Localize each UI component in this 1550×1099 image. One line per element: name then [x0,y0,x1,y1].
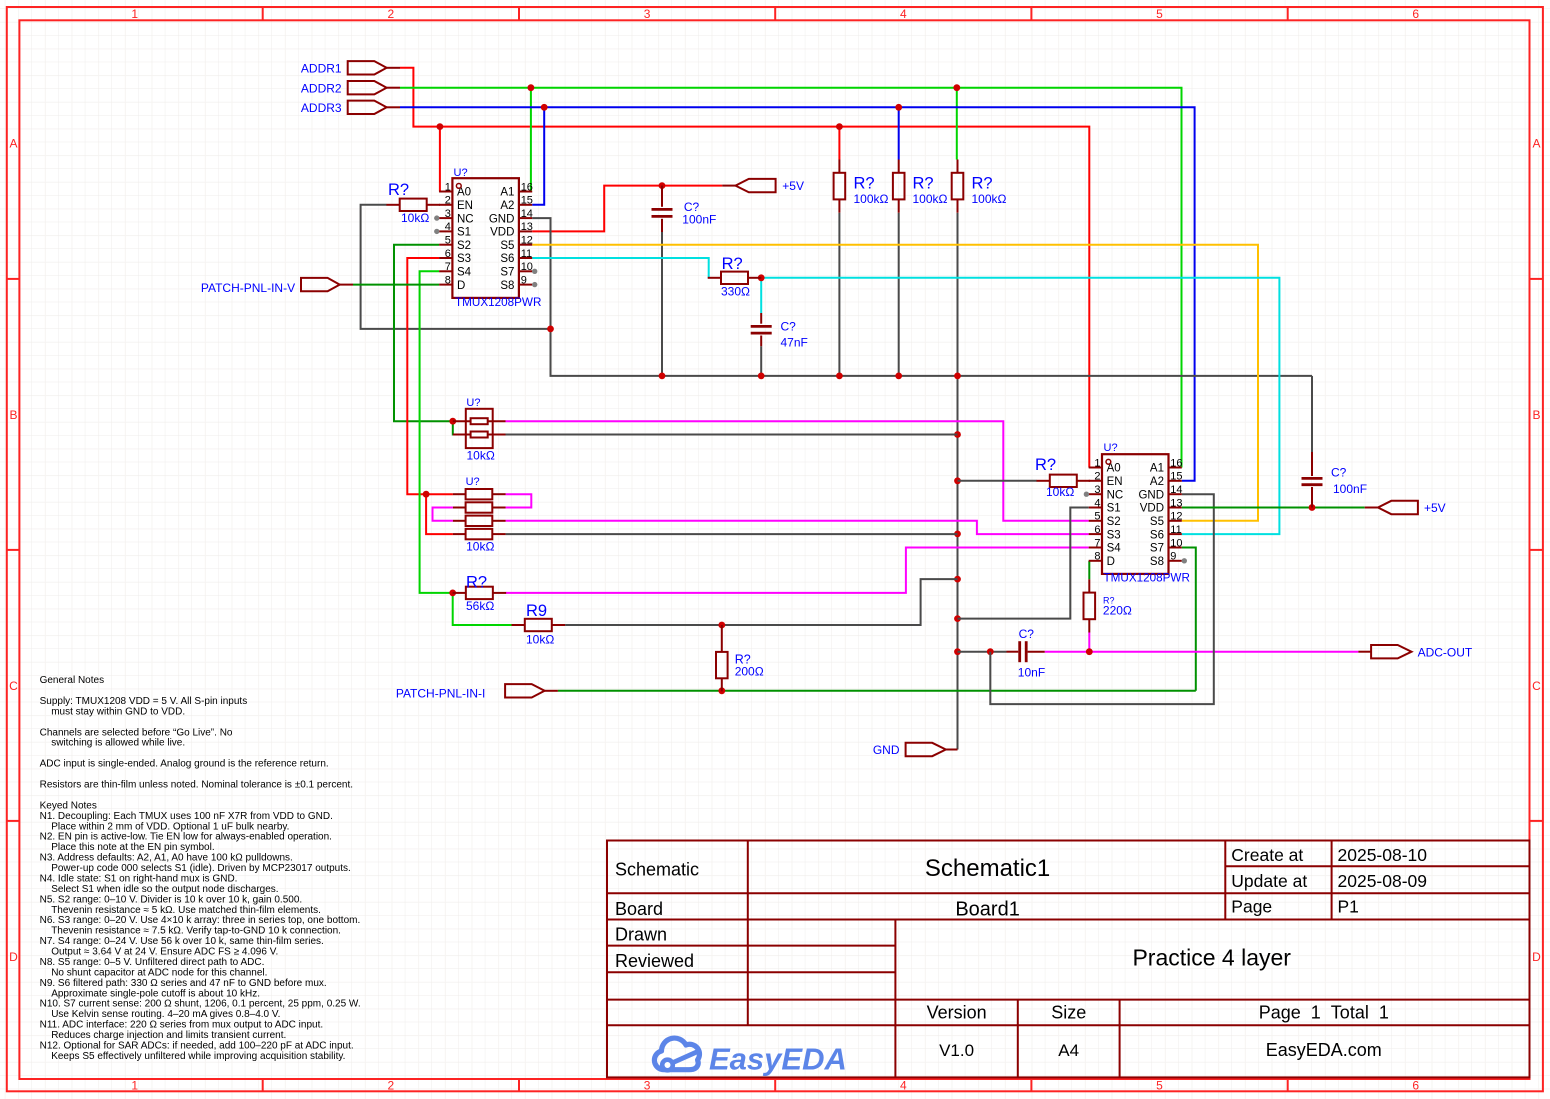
svg-text:100kΩ: 100kΩ [854,192,889,206]
U? right mux pin numbers 1-16 [1094,457,1182,562]
R? ref label (A2 pulldown) [913,175,934,193]
svg-text:10kΩ: 10kΩ [1046,485,1074,499]
svg-text:9: 9 [521,274,527,286]
svg-text:A4: A4 [1058,1041,1079,1060]
svg-text:D: D [457,280,465,292]
svg-text:5: 5 [1094,511,1100,523]
svg-text:A2: A2 [500,200,514,212]
svg-text:S3: S3 [457,253,471,265]
svg-text:5: 5 [1156,7,1163,21]
value label 100kΩ [854,192,889,206]
svg-text:100nF: 100nF [1333,482,1367,496]
wire R? 220 to ADC-OUT line (magenta) [1088,633,1090,652]
svg-text:EN: EN [457,200,473,212]
svg-text:220Ω: 220Ω [1103,604,1132,618]
svg-text:3: 3 [644,1079,651,1093]
svg-text:R?: R? [466,574,487,592]
svg-text:EN: EN [1107,476,1123,488]
junction dots ADDR2 net [528,84,961,91]
svg-text:S3: S3 [1107,529,1121,541]
svg-text:A: A [9,137,17,151]
wire network bottom to GND bus (gray) [506,434,958,436]
svg-text:N3. Address defaults: A2, A1,: N3. Address defaults: A2, A1, A0 have 10… [40,853,293,864]
value label 10kΩ [401,211,429,225]
svg-text:VDD: VDD [1140,503,1164,515]
svg-text:switching is allowed while liv: switching is allowed while live. [51,738,185,749]
no-connect pins U2 NC/S8 [1084,492,1187,564]
svg-text:Approximate single-pole cutoff: Approximate single-pole cutoff is about … [51,988,260,999]
wire ADC-OUT net (C? 10nF to ADC-OUT flag) [1045,651,1359,653]
svg-text:Power-up code 000 selects S1 (: Power-up code 000 selects S1 (idle). Dri… [51,863,351,874]
svg-text:U?: U? [1104,442,1118,454]
junction dot R9/GND wire at R? 200 top [718,622,725,629]
capacitor C? 100nF decoupling U2 [1302,452,1368,508]
svg-text:4: 4 [900,7,907,21]
junction dot S3 net at array pin 1 [423,491,430,498]
svg-text:15: 15 [521,195,533,207]
svg-text:2: 2 [1094,471,1100,483]
junction dot C? 10nF / U2 GND return [987,648,994,655]
svg-text:NC: NC [1107,489,1124,501]
svg-text:R?: R? [1035,456,1056,474]
svg-text:Thevenin resistance ≈ 5 kΩ. Us: Thevenin resistance ≈ 5 kΩ. Use matched … [51,905,321,916]
svg-text:12: 12 [521,235,533,247]
svg-text:Board1: Board1 [955,899,1020,921]
wire U1 S5 to U2 S5 (yellow) [532,245,1258,521]
svg-text:V1.0: V1.0 [939,1041,974,1060]
svg-text:+5V: +5V [782,179,804,193]
svg-text:47nF: 47nF [781,336,808,350]
value label 100nF [682,213,716,227]
capacitor C? 10nF at ADC node [1007,627,1046,680]
svg-text:Supply: TMUX1208 VDD = 5 V. Al: Supply: TMUX1208 VDD = 5 V. All S-pin in… [40,696,248,707]
svg-text:2025-08-10: 2025-08-10 [1338,845,1428,865]
svg-text:1: 1 [1094,457,1100,469]
value label 10nF [1018,666,1045,680]
svg-text:N2. EN pin is active-low. Tie: N2. EN pin is active-low. Tie EN low for… [40,832,332,843]
C? ref label (ADC node) [1019,627,1035,641]
U? left mux reference label [454,167,468,179]
wire U2 D pin to R? 220 [1088,561,1090,580]
svg-text:13: 13 [1170,497,1182,509]
svg-text:Select S1 when idle so the out: Select S1 when idle so the output node d… [51,884,278,895]
svg-text:R?: R? [972,175,993,193]
wire PATCH-PNL-IN-V net to U1 D pin [353,284,439,286]
junction dots ADDR3 net [541,104,902,111]
R? ref label (ADC series) [1103,596,1115,606]
svg-text:Use Kelvin sense routing. 4–20: Use Kelvin sense routing. 4–20 mA gives … [51,1009,280,1020]
svg-text:Channels are selected before “: Channels are selected before “Go Live”. … [40,727,233,738]
svg-text:Create at: Create at [1231,845,1303,865]
svg-text:S4: S4 [1107,543,1122,555]
svg-text:S7: S7 [500,267,514,279]
svg-text:S8: S8 [500,280,514,292]
svg-text:13: 13 [521,221,533,233]
wire ADDR2 net (green bus to U1 A1 and U2 A1) [400,88,1182,468]
svg-text:1: 1 [131,7,138,21]
svg-text:EasyEDA.com: EasyEDA.com [1266,1040,1382,1060]
wire U2 GND pin return loop [990,494,1214,704]
svg-text:ADC-OUT: ADC-OUT [1418,645,1473,659]
svg-text:R?: R? [388,181,409,199]
svg-text:N12. Optional for SAR ADCs: if: N12. Optional for SAR ADCs: if needed, a… [40,1041,354,1052]
resistor R? 10k at U1 EN [386,181,440,225]
svg-text:10kΩ: 10kΩ [401,211,429,225]
wire +5V net left (U1 VDD to +5V flag, C? 100nF tap) [532,186,722,232]
svg-text:4: 4 [900,1079,907,1093]
R? ref label (S6 series) [722,255,743,273]
svg-text:4: 4 [1094,497,1100,509]
svg-text:7: 7 [1094,537,1100,549]
svg-text:330Ω: 330Ω [721,285,750,299]
svg-text:No shunt capacitor at ADC node: No shunt capacitor at ADC node for this … [51,967,267,978]
svg-text:D: D [1532,950,1541,964]
svg-text:C: C [9,679,18,693]
capacitor C? 47nF filter to GND [751,313,808,350]
svg-text:N9. S6 filtered path: 330 Ω se: N9. S6 filtered path: 330 Ω series and 4… [40,978,327,989]
resistor R? 220 series to ADC [1084,579,1132,632]
svg-text:N1. Decoupling: Each TMUX uses: N1. Decoupling: Each TMUX uses 100 nF X7… [40,811,333,822]
junction dot S2 net at network pin 1 [449,418,456,425]
svg-text:Schematic1: Schematic1 [925,855,1050,882]
svg-text:S2: S2 [457,240,471,252]
title block table [607,841,1530,1078]
svg-text:Output ≈ 3.64 V at 24 V. Ensur: Output ≈ 3.64 V at 24 V. Ensure ADC FS ≥… [51,947,278,958]
junction dot S6 net at R? 330 / C? 47nF [758,274,765,281]
EasyEDA logo [654,1038,846,1076]
svg-text:A1: A1 [500,187,514,199]
U? right mux reference label [1104,442,1118,454]
resistor R? 330 series filter S6 [708,255,762,299]
value label 10kΩ [526,633,554,647]
wire R? 56k output to U2 S4 (magenta) [506,548,1089,593]
svg-text:PATCH-PNL-IN-V: PATCH-PNL-IN-V [201,281,295,295]
svg-text:R9: R9 [526,602,547,620]
svg-text:R?: R? [722,255,743,273]
svg-text:B: B [1532,408,1540,422]
svg-text:Page: Page [1231,897,1272,917]
svg-text:Update at: Update at [1231,871,1307,891]
svg-text:N4. Idle state: S1 on right-ha: N4. Idle state: S1 on right-hand mux is … [40,873,238,884]
svg-text:Schematic: Schematic [615,859,699,879]
value label 220Ω [1103,604,1132,618]
wire PATCH-PNL-IN-I net to R? 200 shunt and U2 S7 [558,548,1196,691]
svg-text:N5. S2 range: 0–10 V. Divider: N5. S2 range: 0–10 V. Divider is 10 k ov… [40,894,303,905]
svg-text:10nF: 10nF [1018,666,1045,680]
value label 10kΩ [467,449,495,463]
svg-text:100kΩ: 100kΩ [913,192,948,206]
svg-text:GND: GND [489,213,515,225]
svg-text:ADDR1: ADDR1 [301,62,342,76]
svg-text:must stay within GND to VDD.: must stay within GND to VDD. [51,706,185,717]
svg-text:P1: P1 [1338,897,1359,917]
svg-text:16: 16 [521,181,533,193]
svg-text:S5: S5 [500,240,514,252]
wire U2 S1 to GND bus [958,508,1089,619]
svg-text:EasyEDA: EasyEDA [709,1042,847,1077]
svg-text:N8. S5 range: 0–5 V. Unfiltere: N8. S5 range: 0–5 V. Unfiltered direct p… [40,957,265,968]
svg-text:10: 10 [1170,537,1182,549]
C? ref label (U1 decoupling) [684,200,700,214]
svg-text:N6. S3 range: 0–20 V. Use 4×10: N6. S3 range: 0–20 V. Use 4×10 k array: … [40,915,361,926]
svg-text:3: 3 [445,208,451,220]
ground GND flag [873,743,958,757]
svg-text:General Notes: General Notes [40,675,104,686]
node ADDR2 input flag [301,81,400,95]
R? ref label (U2 EN pulldown) [1035,456,1056,474]
U? left mux body outline [452,178,519,298]
resistor R? 100k pulldown A2 [893,160,948,213]
svg-text:9: 9 [1170,551,1176,563]
svg-text:TMUX1208PWR: TMUX1208PWR [455,296,541,309]
svg-text:6: 6 [1412,1079,1419,1093]
svg-text:5: 5 [1156,1079,1163,1093]
svg-text:U?: U? [466,476,480,488]
resistor R? 100k pulldown A0 [834,160,889,213]
svg-text:3: 3 [644,7,651,21]
U? right mux body outline [1102,454,1169,574]
junction dots ADDR1 net [437,123,843,130]
svg-text:2025-08-09: 2025-08-09 [1338,871,1428,891]
svg-text:7: 7 [445,261,451,273]
svg-text:S7: S7 [1150,543,1164,555]
wire array jog R2-R3 left (magenta) [433,508,453,521]
svg-text:U?: U? [454,167,468,179]
svg-text:11: 11 [1170,524,1181,536]
svg-text:TMUX1208PWR: TMUX1208PWR [1104,572,1190,585]
svg-text:8: 8 [1094,551,1100,563]
svg-text:+5V: +5V [1424,501,1446,515]
svg-text:N7. S4 range: 0–24 V. Use 56 k: N7. S4 range: 0–24 V. Use 56 k over 10 k… [40,936,324,947]
node ADC-OUT output flag [1358,645,1473,659]
U? ref label (4x10k array) [466,476,480,488]
svg-text:2: 2 [445,195,451,207]
C? ref label (U2 decoupling) [1331,466,1347,480]
svg-text:S6: S6 [500,253,514,265]
svg-text:10kΩ: 10kΩ [466,540,494,554]
resistor R? 200 current shunt [716,625,764,691]
svg-text:A: A [1532,137,1540,151]
R? ref label (U1 EN pulldown) [388,181,409,199]
svg-text:1: 1 [445,181,451,193]
svg-text:Reviewed: Reviewed [615,951,694,971]
IC U? (right) TMUX1208PWR analog multiplexer [1089,442,1190,585]
svg-text:GND: GND [1138,489,1164,501]
svg-text:Reduces charge injection and l: Reduces charge injection and limits tran… [51,1030,286,1041]
U? left mux pin numbers 1-16 [445,181,533,286]
resistor network U? 2x10k divider (S2) [453,397,506,463]
R? ref label (A0 pulldown) [854,175,875,193]
wire +5V net right (U2 VDD to +5V flag, C? 100nF tap) [1182,507,1365,509]
value label 330Ω [721,285,750,299]
resistor R? 56k (S4 divider top) [453,574,507,614]
R? ref label (shunt) [735,652,751,666]
node PATCH-PNL-IN-V input flag [201,278,353,295]
svg-text:200Ω: 200Ω [735,665,764,679]
wire array bottom to GND bus (gray) [506,533,958,535]
svg-text:Resistors are thin-film unless: Resistors are thin-film unless noted. No… [40,780,353,791]
svg-text:14: 14 [1170,484,1182,496]
resistor array U? 4x10k (S3 divider) [453,476,506,554]
svg-text:100nF: 100nF [682,213,716,227]
svg-text:ADC input is single-ended. Ana: ADC input is single-ended. Analog ground… [40,759,329,770]
U? right mux pin 1 indicator [1106,459,1111,464]
svg-text:15: 15 [1170,471,1182,483]
resistor R9 10k (S4 divider bottom) [512,602,566,647]
svg-text:1: 1 [131,1079,138,1093]
svg-text:N10. S7 current sense: 200 Ω s: N10. S7 current sense: 200 Ω shunt, 1206… [40,999,361,1010]
svg-text:A2: A2 [1150,476,1164,488]
wire ADDR3 net (blue bus to U1 A2 and U2 A2) [400,107,1195,481]
value label 100kΩ [972,192,1007,206]
R9 ref label [526,602,547,620]
svg-text:11: 11 [521,248,532,260]
svg-text:Drawn: Drawn [615,925,667,945]
svg-text:5: 5 [445,235,451,247]
svg-text:R?: R? [913,175,934,193]
svg-text:2: 2 [388,1079,395,1093]
svg-text:ADDR3: ADDR3 [301,101,342,115]
value label 100kΩ [913,192,948,206]
svg-text:8: 8 [445,274,451,286]
svg-text:GND: GND [873,743,900,757]
svg-text:S5: S5 [1150,516,1164,528]
svg-text:C?: C? [1331,466,1347,480]
svg-text:10kΩ: 10kΩ [526,633,554,647]
svg-text:U?: U? [466,397,480,409]
svg-text:2: 2 [388,7,395,21]
wire U1 S4 net to R? 56k and R9 divider [420,271,512,625]
U? left mux part name label TMUX1208PWR [455,296,541,309]
svg-text:NC: NC [457,213,474,225]
junction dots GND bus [547,326,961,656]
svg-text:6: 6 [445,248,451,260]
power +5V flag right [1365,501,1446,515]
U? right mux part name label TMUX1208PWR [1104,572,1190,585]
svg-text:3: 3 [1094,484,1100,496]
svg-text:C?: C? [781,320,797,334]
wire C? 10nF left lead to GND bus [958,651,1007,653]
wire R9 to GND bus [565,579,957,625]
value label 47nF [781,336,808,350]
svg-text:ADDR2: ADDR2 [301,81,342,95]
svg-text:56kΩ: 56kΩ [466,599,494,613]
value label 10kΩ [1046,485,1074,499]
svg-text:Page 1 Total 1: Page 1 Total 1 [1259,1002,1389,1022]
svg-text:6: 6 [1412,7,1419,21]
svg-text:16: 16 [1170,457,1182,469]
svg-text:10kΩ: 10kΩ [467,449,495,463]
wire R? 10k pulldown to GND bus (U2 EN) [958,480,1037,482]
notes text block [40,675,361,1062]
value label 200Ω [735,665,764,679]
U? right mux pin stubs 1-16 [1089,468,1182,561]
IC U? (left) TMUX1208PWR analog multiplexer [439,167,541,309]
svg-text:N11. ADC interface: 220 Ω seri: N11. ADC interface: 220 Ω series from mu… [40,1020,324,1031]
wire U1 S6 to R? 330 filter (cyan) [532,258,1279,534]
svg-text:10: 10 [521,261,533,273]
resistor R? 10k at U2 EN [1035,456,1090,499]
wire U1 S3 net to resistor array U? (4x10k) [407,258,453,534]
resistor R? 100k pulldown A1 [952,160,1007,213]
svg-text:D: D [1107,556,1115,568]
svg-text:Practice 4 layer: Practice 4 layer [1132,945,1291,971]
svg-text:PATCH-PNL-IN-I: PATCH-PNL-IN-I [396,686,486,700]
svg-text:Keeps S5 effectively unfiltere: Keeps S5 effectively unfiltered while im… [51,1051,345,1062]
U? left mux pin 1 indicator [456,184,461,189]
value label 10kΩ [466,540,494,554]
junction dot S4 net at R? 56k [449,590,456,597]
R? ref label (A1 pulldown) [972,175,993,193]
svg-text:Place within 2 mm of VDD. Opti: Place within 2 mm of VDD. Optional 1 uF … [51,821,289,832]
svg-text:12: 12 [1170,511,1182,523]
no-connect pins U1 NC/S1/S7/S8 [434,215,537,287]
svg-text:S1: S1 [1107,503,1121,515]
wire array jog R1-R2 right (magenta) [506,494,532,507]
capacitor C? 100nF decoupling U1 [652,186,717,232]
node ADDR3 input flag [301,101,400,115]
C? ref label (S6 filter) [781,320,797,334]
svg-text:S2: S2 [1107,516,1121,528]
wire ADDR1 net (red bus to U1 A0 and U2 A0) [400,68,1089,468]
svg-text:S1: S1 [457,227,471,239]
U? right mux pin names A0 EN NC S1 S2 S3 S4 D / A1 A2 GND VDD S5 S6 S7 S8 [1107,463,1164,568]
svg-text:Size: Size [1051,1002,1086,1022]
svg-text:VDD: VDD [490,227,514,239]
wire network output to U2 S2 (magenta) [506,421,1089,521]
wire GND net (U1 GND, pulldown returns, caps, GND bus) [361,205,1312,750]
svg-text:Version: Version [927,1002,987,1022]
svg-text:Thevenin resistance ≈ 7.5 kΩ.: Thevenin resistance ≈ 7.5 kΩ. Verify tap… [51,926,341,937]
wire U1 S2 net to resistor network U? (2x10k) [394,245,453,435]
svg-text:6: 6 [1094,524,1100,536]
svg-text:14: 14 [521,208,533,220]
junction dot +5V left at C? 100nF [659,182,666,189]
svg-text:S6: S6 [1150,529,1164,541]
U? ref label (2x10k network) [466,397,480,409]
U? left mux pin stubs 1-16 [439,192,532,285]
svg-text:100kΩ: 100kΩ [972,192,1007,206]
svg-text:C: C [1532,679,1541,693]
svg-text:Board: Board [615,899,663,919]
power +5V flag left [722,179,804,193]
R? ref label (S4 divider top) [466,574,487,592]
svg-text:C?: C? [1019,627,1035,641]
svg-text:S4: S4 [457,267,472,279]
svg-text:Place this note at the EN pin: Place this note at the EN pin symbol. [51,842,214,853]
junction dot PATCH-PNL-IN-I at R? 200 [718,687,725,694]
svg-text:R?: R? [854,175,875,193]
wire array tap to U2 S3 (magenta) [506,521,1089,534]
node ADDR1 input flag [301,61,400,75]
junction dot +5V right at C? 100nF [1309,504,1316,511]
svg-text:D: D [9,950,18,964]
svg-text:B: B [9,408,17,422]
value label 56kΩ [466,599,494,613]
svg-text:A1: A1 [1150,463,1164,475]
svg-text:4: 4 [445,221,451,233]
U? left mux pin names A0 EN NC S1 S2 S3 S4 D / A1 A2 GND VDD S5 S6 S7 S8 [457,187,514,292]
value label 100nF [1333,482,1367,496]
svg-text:Keyed Notes: Keyed Notes [40,800,97,811]
node PATCH-PNL-IN-I input flag [396,684,558,700]
svg-text:S8: S8 [1150,556,1164,568]
junction dots ADC-OUT net [1086,648,1093,655]
